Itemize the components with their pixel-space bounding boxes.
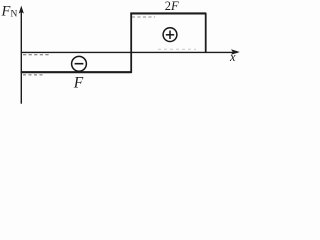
svg-text:2F: 2F xyxy=(165,0,179,13)
svg-text:F: F xyxy=(1,3,11,19)
svg-text:N: N xyxy=(11,10,18,20)
svg-text:x: x xyxy=(229,50,236,64)
svg-text:F: F xyxy=(73,75,84,92)
